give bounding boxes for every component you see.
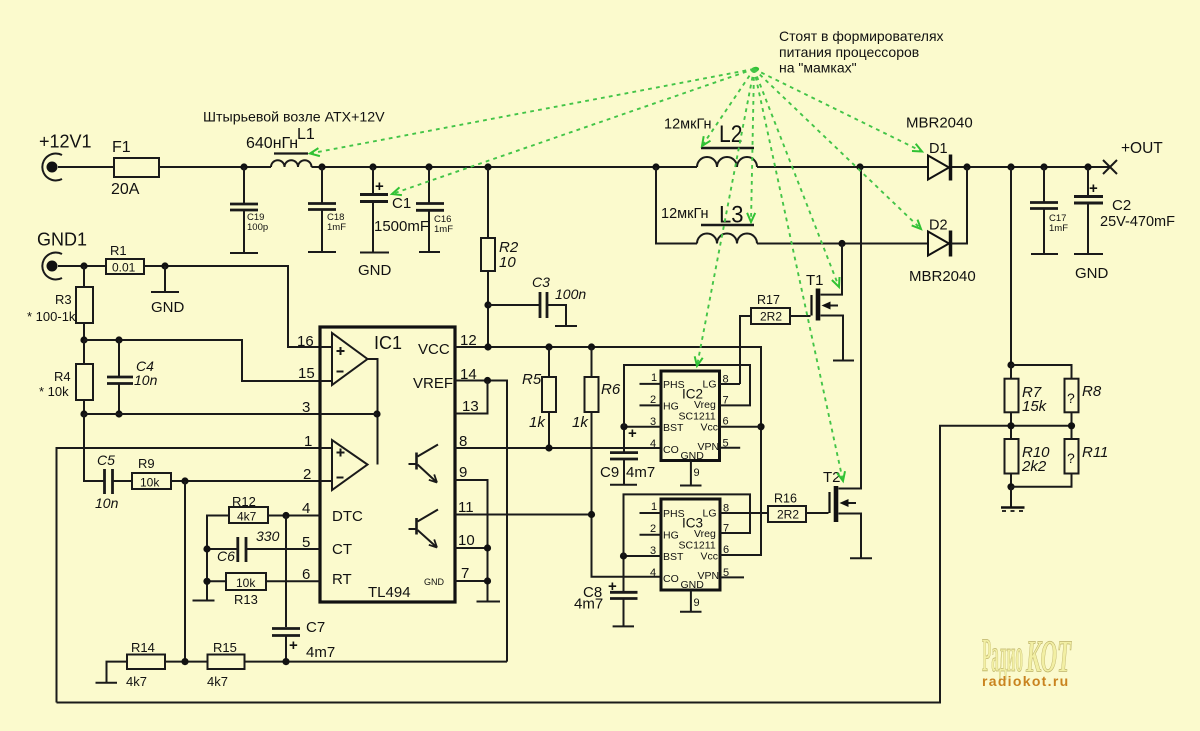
- node L1 out: [318, 163, 325, 170]
- svg-text:6: 6: [723, 544, 729, 556]
- svg-text:RT: RT: [332, 571, 352, 588]
- svg-text:1500mF: 1500mF: [374, 218, 429, 235]
- green arrow to L1: [310, 69, 754, 156]
- svg-text:R13: R13: [234, 592, 258, 607]
- svg-text:MBR2040: MBR2040: [909, 268, 976, 285]
- svg-text:GND: GND: [681, 579, 705, 591]
- node R9/pin2: [181, 477, 188, 484]
- node pin7: [484, 577, 491, 584]
- svg-text:11: 11: [458, 499, 474, 516]
- svg-text:1mF: 1mF: [1049, 223, 1068, 234]
- svg-text:3: 3: [650, 545, 656, 557]
- pin 8 IC2 LG: [720, 383, 741, 385]
- node divider mid: [1007, 422, 1014, 429]
- resistor R4 10k: [39, 340, 93, 414]
- svg-text:+: +: [608, 578, 617, 595]
- svg-text:4: 4: [650, 438, 656, 450]
- wire GND1 to R1: [58, 265, 106, 267]
- svg-text:Стоят в формирователях: Стоят в формирователях: [779, 28, 944, 44]
- node C4 top: [115, 336, 122, 343]
- green arrow to IC2: [695, 69, 754, 366]
- svg-text:GND: GND: [1075, 265, 1109, 282]
- svg-text:9: 9: [459, 464, 467, 481]
- svg-text:8: 8: [723, 503, 729, 515]
- svg-text:GND: GND: [681, 450, 705, 462]
- node C2: [1084, 163, 1091, 170]
- green arrow to L3: [747, 69, 755, 222]
- svg-text:Vcc: Vcc: [701, 551, 719, 563]
- node R6 bottom: [588, 511, 595, 518]
- svg-text:7: 7: [723, 395, 729, 407]
- svg-text:?: ?: [1067, 450, 1075, 466]
- pin 7 IC2 Vreg bootstrap: [624, 365, 750, 427]
- svg-text:4: 4: [302, 500, 310, 517]
- svg-text:6: 6: [723, 416, 729, 428]
- capacitor C8 4m7 bootstrap: [574, 556, 638, 626]
- ground IC1 pin7: [477, 601, 501, 603]
- resistor R7 15k: [1005, 365, 1048, 439]
- svg-text:GND1: GND1: [37, 230, 87, 250]
- green arrow to T1: [754, 69, 840, 287]
- resistor R8: [1065, 379, 1102, 439]
- wire pin10: [455, 547, 488, 549]
- svg-text:3: 3: [650, 416, 656, 428]
- node T1 drain: [838, 240, 845, 247]
- wire pin9 to gnd chain: [455, 480, 488, 601]
- svg-text:R4: R4: [54, 369, 71, 384]
- svg-text:BST: BST: [663, 422, 684, 434]
- svg-text:15k: 15k: [1022, 398, 1048, 415]
- svg-text:Vreg: Vreg: [694, 399, 716, 411]
- pin 3 IC3 BST: [624, 555, 662, 557]
- svg-text:R16: R16: [774, 492, 797, 506]
- svg-text:1: 1: [304, 433, 312, 450]
- svg-text:T1: T1: [806, 272, 824, 289]
- node VCC/R6: [588, 343, 595, 350]
- svg-text:1: 1: [651, 372, 657, 384]
- resistor R15 4k7: [207, 640, 507, 689]
- svg-text:10n: 10n: [95, 495, 119, 511]
- node C6 left: [203, 545, 210, 552]
- svg-text:R8: R8: [1082, 383, 1102, 400]
- wire R11 bottom: [1011, 474, 1072, 487]
- svg-text:640нГн: 640нГн: [246, 135, 298, 152]
- wire pin14 VREF: [455, 381, 507, 662]
- svg-text:R14: R14: [131, 640, 155, 655]
- svg-text:CO: CO: [663, 573, 679, 585]
- transistor T1 MOSFET: [790, 244, 854, 361]
- pin 5 IC2 VPN: [720, 447, 741, 449]
- svg-text:R17: R17: [757, 293, 780, 307]
- svg-text:HG: HG: [663, 401, 679, 413]
- wire pin11 to IC3 CO: [455, 515, 661, 577]
- green arrow origin blob: [750, 66, 759, 73]
- IC3 SC1211 body: [661, 499, 720, 591]
- pin 2 IC3: [640, 534, 662, 536]
- transistor Q2: [409, 510, 439, 548]
- svg-text:F1: F1: [112, 139, 131, 156]
- node R2 branch: [484, 163, 491, 170]
- capacitor C3 100n: [488, 274, 586, 326]
- svg-text:1k: 1k: [529, 414, 546, 431]
- svg-text:R1: R1: [110, 243, 127, 258]
- pin 6 IC2 Vcc: [720, 426, 762, 428]
- pin 2 IC2: [640, 404, 662, 406]
- diode D1 MBR2040: [906, 115, 973, 181]
- svg-text:4k7: 4k7: [126, 674, 147, 689]
- pin 6 IC3 Vcc: [720, 554, 761, 556]
- node BST C9: [620, 423, 627, 430]
- svg-text:GND: GND: [358, 262, 392, 279]
- wire pin13: [455, 381, 488, 414]
- node VCC/R5: [545, 343, 552, 350]
- node BST C8: [620, 552, 627, 559]
- svg-text:100n: 100n: [555, 286, 586, 302]
- wire pin7: [455, 580, 488, 582]
- capacitor C2 25V-470mF electrolytic: [1074, 167, 1175, 254]
- node C7 bottom: [282, 658, 289, 665]
- svg-text:8: 8: [723, 374, 729, 386]
- node C16: [425, 163, 432, 170]
- wire divider mid: [1006, 425, 1072, 427]
- ground GND near R1: [151, 266, 185, 316]
- svg-text:C6: C6: [217, 548, 235, 564]
- green arrow to D1: [754, 69, 922, 152]
- svg-text:+: +: [1089, 180, 1098, 197]
- capacitor C7 4m7: [272, 619, 335, 662]
- resistor R3 100-1k: [27, 266, 93, 340]
- ground divider: [1001, 487, 1025, 511]
- svg-text:12мкГн: 12мкГн: [661, 206, 709, 222]
- logo RadioKOT: [982, 629, 1072, 689]
- op-amp U1 IC1 TL494 body: [320, 327, 455, 602]
- svg-text:GND: GND: [151, 299, 185, 316]
- connector GND1: [37, 230, 87, 280]
- svg-text:LG: LG: [703, 379, 717, 391]
- green arrow to L2: [702, 69, 754, 146]
- svg-text:4m7: 4m7: [306, 644, 335, 661]
- svg-text:Vcc: Vcc: [701, 422, 719, 434]
- pin 3 IC2 BST: [624, 426, 661, 428]
- svg-text:1mF: 1mF: [327, 222, 346, 233]
- capacitor C18 1mF: [308, 167, 346, 252]
- pin 5 IC3 VPN: [720, 576, 744, 578]
- green arrow to T2: [754, 69, 845, 481]
- capacitor C4 10n: [107, 340, 158, 414]
- svg-text:L1: L1: [297, 126, 315, 143]
- capacitor C9 4m7 bootstrap: [600, 425, 655, 485]
- wire pin3 internal: [320, 413, 377, 415]
- ground R12 chain: [193, 600, 215, 602]
- svg-text:L2: L2: [719, 121, 743, 148]
- wire to pin3: [84, 413, 320, 415]
- svg-text:CT: CT: [332, 541, 352, 558]
- svg-text:?: ?: [1067, 390, 1075, 406]
- wire bottom feedback: [57, 426, 1006, 703]
- svg-text:4m7: 4m7: [626, 464, 655, 481]
- svg-text:* 10k: * 10k: [39, 384, 69, 399]
- resistor R14 4k7: [96, 640, 208, 689]
- svg-text:7: 7: [723, 523, 729, 535]
- resistor R9 10k: [113, 456, 321, 490]
- resistor R10 2k2: [1005, 439, 1051, 507]
- svg-text:5: 5: [723, 567, 729, 579]
- IC2 SC1211 body: [661, 371, 720, 462]
- node R14/R15: [181, 658, 188, 665]
- node +OUT terminal: [1103, 140, 1163, 174]
- node pin10: [484, 544, 491, 551]
- wire +OUT to divider: [1010, 167, 1012, 365]
- svg-text:4k7: 4k7: [237, 510, 257, 524]
- node R10 bottom: [1007, 483, 1014, 490]
- svg-text:R5: R5: [522, 371, 542, 388]
- fuse F1 20A: [111, 139, 159, 198]
- svg-text:20A: 20A: [111, 181, 140, 198]
- svg-text:T2: T2: [823, 469, 841, 486]
- wire to pin15: [84, 340, 320, 381]
- svg-text:2: 2: [650, 394, 656, 406]
- op-amp comparator 2: [320, 440, 368, 490]
- svg-text:+: +: [375, 178, 384, 195]
- svg-text:4: 4: [650, 567, 656, 579]
- green arrow to C1: [392, 69, 754, 195]
- svg-text:16: 16: [297, 333, 314, 350]
- svg-text:C7: C7: [306, 619, 325, 636]
- svg-text:CO: CO: [663, 444, 679, 456]
- svg-text:LG: LG: [703, 508, 717, 520]
- svg-text:10: 10: [499, 254, 516, 271]
- transistor Q1: [409, 445, 439, 483]
- svg-text:1k: 1k: [572, 414, 589, 431]
- svg-text:+OUT: +OUT: [1121, 140, 1163, 157]
- inductor L2 12uH: [664, 117, 757, 168]
- svg-text:C9: C9: [600, 464, 619, 481]
- svg-text:10k: 10k: [236, 576, 256, 590]
- wire pin8 to IC2 CO: [455, 447, 661, 449]
- svg-text:3: 3: [302, 399, 310, 416]
- svg-text:C1: C1: [392, 195, 411, 212]
- node D1 cathode: [963, 163, 970, 170]
- svg-text:на "мамках": на "мамках": [779, 60, 857, 76]
- svg-text:C2: C2: [1112, 197, 1131, 214]
- svg-text:330: 330: [256, 528, 280, 544]
- svg-text:R11: R11: [1082, 444, 1108, 461]
- node C1: [369, 163, 376, 170]
- inductor L3 12uH: [661, 202, 757, 244]
- pin 7 IC3 Vreg bootstrap: [624, 494, 751, 556]
- capacitor C19 100p: [230, 167, 268, 253]
- svg-text:VCC: VCC: [418, 341, 450, 358]
- svg-text:Штырьевой возле ATX+12V: Штырьевой возле ATX+12V: [203, 110, 385, 126]
- svg-text:2R2: 2R2: [777, 508, 799, 522]
- svg-text:DTC: DTC: [332, 508, 363, 525]
- svg-text:13: 13: [462, 398, 479, 415]
- svg-text:10n: 10n: [134, 372, 158, 388]
- capacitor C5 10n: [95, 452, 119, 511]
- svg-text:C5: C5: [97, 452, 115, 468]
- svg-text:9: 9: [694, 467, 700, 479]
- wire R1 to pin16: [144, 266, 320, 347]
- resistor R11: [1065, 439, 1109, 474]
- wire R4 node down to C5: [84, 414, 104, 481]
- svg-text:radiokot.ru: radiokot.ru: [982, 673, 1069, 689]
- node L2 branch: [652, 163, 659, 170]
- node R7 branch: [1007, 163, 1014, 170]
- resistor R6 1k: [572, 347, 621, 515]
- node VCC/IC2 Vcc: [757, 423, 764, 430]
- svg-text:4k7: 4k7: [207, 674, 228, 689]
- pin 1 IC3: [640, 512, 662, 514]
- inductor L1 640nH: [246, 126, 315, 167]
- pin 9 IC3 ground: [680, 590, 702, 612]
- svg-text:100p: 100p: [247, 222, 268, 233]
- pin 1 IC2: [640, 383, 662, 385]
- svg-text:9: 9: [694, 597, 700, 609]
- svg-text:15: 15: [298, 365, 315, 382]
- svg-text:MBR2040: MBR2040: [906, 115, 973, 132]
- capacitor C1 1500mF electrolytic: [360, 167, 429, 253]
- node C17: [1040, 163, 1047, 170]
- svg-text:VREF: VREF: [413, 375, 453, 392]
- node C4 bottom: [115, 410, 122, 417]
- svg-text:4m7: 4m7: [574, 596, 603, 613]
- wire R9 node down: [184, 481, 186, 662]
- pin 9 IC2 ground: [680, 461, 702, 486]
- node R8 bottom: [1068, 422, 1075, 429]
- wire VCC rail pin12: [455, 347, 761, 555]
- resistor R13 10k: [207, 573, 320, 607]
- resistor R5 1k: [522, 347, 556, 448]
- svg-text:+: +: [289, 637, 298, 654]
- svg-text:D1: D1: [929, 141, 948, 157]
- node T2 drain branch: [856, 163, 863, 170]
- svg-text:5: 5: [723, 438, 729, 450]
- node R7 top: [1007, 361, 1014, 368]
- svg-text:C3: C3: [532, 274, 550, 290]
- connector +12V1: [39, 132, 92, 181]
- svg-text:2k2: 2k2: [1021, 458, 1047, 475]
- svg-text:10: 10: [458, 532, 475, 549]
- node R5 bottom: [545, 444, 552, 451]
- capacitor C17 1mF: [1030, 167, 1068, 254]
- svg-text:0.01: 0.01: [112, 261, 136, 275]
- svg-text:Vreg: Vreg: [694, 528, 716, 540]
- node DTC: [282, 512, 289, 519]
- wire pin1 to feedback: [57, 448, 321, 703]
- svg-text:BST: BST: [663, 551, 684, 563]
- svg-text:+12V1: +12V1: [39, 132, 92, 152]
- svg-text:1: 1: [651, 501, 657, 513]
- svg-text:R6: R6: [601, 381, 621, 398]
- resistor R17 2R2: [740, 293, 790, 384]
- node comparator outputs: [373, 410, 380, 417]
- node VCC/R2: [484, 343, 491, 350]
- diode D2 MBR2040: [909, 167, 976, 285]
- annotation processors note: [779, 28, 944, 76]
- svg-text:питания процессоров: питания процессоров: [779, 44, 919, 60]
- svg-text:2R2: 2R2: [760, 310, 782, 324]
- node GND tap: [161, 262, 168, 269]
- svg-text:7: 7: [461, 565, 469, 582]
- op-amp comparator 1: [320, 333, 378, 465]
- node R3/R4: [80, 336, 87, 343]
- svg-text:1mF: 1mF: [434, 224, 453, 235]
- svg-text:TL494: TL494: [368, 584, 411, 601]
- svg-text:GND: GND: [424, 577, 445, 587]
- pin 8 IC3 LG: [720, 512, 768, 514]
- capacitor C6 330: [207, 528, 320, 564]
- svg-text:R12: R12: [232, 494, 256, 509]
- wire R8 branch top: [1011, 365, 1072, 379]
- resistor R2 10: [481, 167, 519, 347]
- svg-text:R15: R15: [213, 640, 237, 655]
- node R13 left: [203, 578, 210, 585]
- svg-text:IC1: IC1: [374, 333, 402, 353]
- svg-text:25V-470mF: 25V-470mF: [1100, 214, 1175, 230]
- resistor R12 4k7: [207, 494, 320, 600]
- resistor R16 2R2: [768, 492, 829, 523]
- svg-text:L3: L3: [719, 202, 744, 229]
- resistor R1 0.01: [106, 243, 144, 275]
- svg-text:10k: 10k: [140, 476, 160, 490]
- transistor T2 MOSFET: [823, 167, 872, 558]
- svg-text:* 100-1k: * 100-1k: [27, 309, 76, 324]
- wire main +12V rail: [58, 166, 1110, 168]
- capacitor C16 1mF: [416, 167, 453, 252]
- node pin14/13: [484, 377, 491, 384]
- svg-text:HG: HG: [663, 530, 679, 542]
- svg-text:12мкГн: 12мкГн: [664, 117, 712, 133]
- node R3 top: [80, 262, 87, 269]
- svg-text:D2: D2: [929, 218, 948, 234]
- node R2/C3: [484, 301, 491, 308]
- green arrow to D2: [754, 69, 921, 229]
- node R4 bottom: [80, 410, 87, 417]
- node after F1: [240, 163, 247, 170]
- wire L2/L3 branch: [656, 167, 928, 244]
- svg-text:2: 2: [303, 466, 311, 483]
- svg-text:2: 2: [650, 523, 656, 535]
- wire DTC node down to C7: [285, 516, 287, 628]
- svg-text:R3: R3: [55, 292, 72, 307]
- svg-text:R9: R9: [138, 456, 155, 471]
